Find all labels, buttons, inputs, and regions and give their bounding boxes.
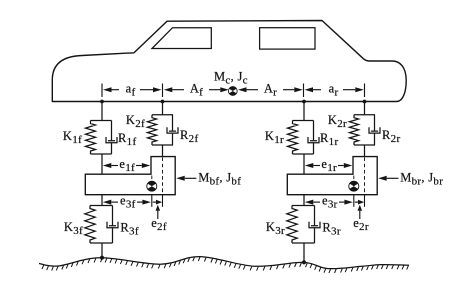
svg-text:ar​: ar​ bbox=[329, 82, 339, 99]
wire block to K3f/R3f unit bbox=[101, 195, 103, 206]
wire K2r unit to block step bbox=[364, 145, 366, 157]
svg-text:K2f​: K2f​ bbox=[126, 113, 145, 130]
wire block to K3r/R3r unit bbox=[303, 195, 305, 206]
svg-text:K1f​: K1f​ bbox=[63, 129, 82, 146]
frame bars K3r/R3r bbox=[292, 206, 315, 244]
wire K1f unit to block bbox=[101, 154, 103, 174]
wire K3r unit to ground bbox=[303, 243, 305, 262]
arrow to block M_br bbox=[387, 177, 399, 179]
svg-text:Mbf​, Jbf​: Mbf​, Jbf​ bbox=[198, 171, 241, 188]
dimension a_f arrows bbox=[112, 89, 120, 91]
tick on attach axis r bbox=[364, 196, 366, 207]
spring K3f bbox=[85, 206, 95, 244]
svg-text:Mc​, Jc​: Mc​, Jc​ bbox=[214, 70, 248, 87]
wire body to K1r/R1r unit bbox=[303, 102, 305, 121]
dimension tick x=303.5 bbox=[303, 84, 305, 98]
svg-text:Af​: Af​ bbox=[190, 82, 203, 99]
dimension e1f arrows bbox=[111, 165, 118, 167]
frame bars K3f/R3f bbox=[90, 206, 113, 244]
tick on attach axis f bbox=[162, 196, 164, 207]
spring K1f bbox=[86, 121, 96, 155]
spring K1r bbox=[288, 121, 298, 155]
dimension tick x=162.5 bbox=[162, 84, 164, 98]
svg-text:e3f​: e3f​ bbox=[120, 193, 136, 210]
frame bars K1f/R1f bbox=[91, 121, 112, 155]
dimension e1r arrows bbox=[313, 165, 320, 167]
mass block M_bf bbox=[85, 157, 175, 195]
damper R1r bbox=[308, 121, 319, 155]
car left window bbox=[152, 28, 211, 49]
node body attach f2 bbox=[161, 100, 165, 104]
node body attach r1 bbox=[302, 100, 306, 104]
center of mass of block M_bf bbox=[147, 181, 157, 191]
wire K1r unit to block bbox=[303, 154, 305, 174]
node body attach f1 bbox=[100, 100, 104, 104]
dimension e3f arrows bbox=[111, 201, 118, 203]
car body outline bbox=[52, 21, 406, 102]
frame bars K1r/R1r bbox=[293, 121, 314, 155]
svg-text:e3r​: e3r​ bbox=[322, 193, 338, 210]
node ground contact f bbox=[100, 256, 104, 260]
dashed attach axis r (x=364.5) bbox=[364, 158, 366, 196]
dimension tick x=102 bbox=[101, 84, 103, 98]
wire body to K2f/R2f unit bbox=[162, 102, 164, 115]
dimension e2r arrow bbox=[359, 211, 361, 219]
damper R3r bbox=[309, 206, 320, 244]
arrow to block M_bf bbox=[185, 177, 197, 179]
svg-text:e1r​: e1r​ bbox=[321, 157, 337, 174]
dimension e2r inner arrow bbox=[355, 201, 358, 203]
node body attach r2 bbox=[363, 100, 367, 104]
dashed attach axis f (x=162.5) bbox=[162, 158, 164, 196]
svg-text:R1r​: R1r​ bbox=[320, 131, 338, 148]
dashed CoM axis of block f (x=151.8) bbox=[151, 176, 153, 196]
svg-text:af​: af​ bbox=[126, 82, 136, 99]
svg-text:Ar​: Ar​ bbox=[264, 82, 277, 99]
wire K3f unit to ground bbox=[101, 243, 103, 258]
frame bars K2f/R2f bbox=[152, 115, 173, 145]
svg-text:R1f​: R1f​ bbox=[118, 131, 136, 148]
svg-text:K2r​: K2r​ bbox=[328, 113, 347, 130]
car right window bbox=[260, 28, 315, 49]
dimension e2f inner arrow bbox=[153, 201, 156, 203]
ground hatching bbox=[42, 257, 408, 273]
svg-text:K3f​: K3f​ bbox=[64, 220, 83, 237]
mass block M_br bbox=[287, 157, 377, 195]
spring K3r bbox=[287, 206, 297, 244]
spring K2r bbox=[349, 115, 358, 145]
damper R1f bbox=[106, 121, 117, 155]
tick on CoM axis f bbox=[151, 196, 153, 207]
center of mass of block M_br bbox=[349, 181, 359, 191]
wire body to K2r/R2r unit bbox=[364, 102, 366, 115]
svg-text:e2f​: e2f​ bbox=[151, 216, 167, 233]
dimension tick x=364.5 bbox=[364, 84, 366, 98]
svg-text:e2r​: e2r​ bbox=[353, 216, 369, 233]
ground wavy surface bbox=[39, 257, 409, 269]
svg-text:e1f​: e1f​ bbox=[119, 157, 135, 174]
svg-text:K3r​: K3r​ bbox=[266, 220, 285, 237]
damper R2r bbox=[369, 115, 380, 145]
svg-text:R3r​: R3r​ bbox=[322, 221, 340, 238]
svg-text:R3f​: R3f​ bbox=[120, 221, 138, 238]
svg-text:R2r​: R2r​ bbox=[382, 128, 400, 145]
dashed CoM axis of block r (x=353.8) bbox=[353, 176, 355, 196]
damper R3f bbox=[107, 206, 118, 244]
dimension A_r arrows bbox=[247, 89, 259, 91]
center of mass symbol Mc bbox=[228, 87, 237, 96]
wire K2f unit to block step bbox=[162, 145, 164, 157]
spring K2f bbox=[147, 115, 156, 145]
tick on CoM axis r bbox=[353, 196, 355, 207]
frame bars K2r/R2r bbox=[354, 115, 375, 145]
dimension e3r arrows bbox=[313, 201, 320, 203]
svg-text:Mbr​, Jbr​: Mbr​, Jbr​ bbox=[400, 171, 443, 188]
node ground contact r bbox=[302, 260, 306, 264]
wire body to K1f/R1f unit bbox=[101, 102, 103, 121]
dimension e2f arrow bbox=[157, 211, 159, 219]
damper R2f bbox=[167, 115, 178, 145]
svg-text:K1r​: K1r​ bbox=[265, 129, 284, 146]
svg-text:R2f​: R2f​ bbox=[180, 128, 198, 145]
dimension a_r arrows bbox=[313, 89, 321, 91]
dimension A_f arrows bbox=[172, 89, 184, 91]
